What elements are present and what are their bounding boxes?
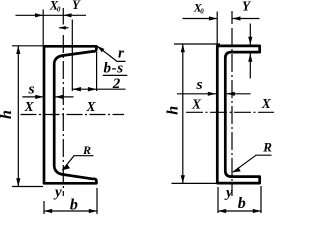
svg-text:2: 2 <box>112 76 121 92</box>
flange slope arrow (left view) <box>59 26 69 30</box>
label fraction (b-s)/2 <box>103 61 128 92</box>
dimension s web thickness (right view) <box>177 92 251 96</box>
dimension h (right view) <box>172 44 221 183</box>
svg-text:R: R <box>82 143 91 157</box>
svg-text:s: s <box>27 81 34 98</box>
label X0 (right view) <box>193 1 205 16</box>
svg-text:0: 0 <box>200 8 204 16</box>
svg-text:b: b <box>238 195 246 212</box>
leader R to web fillet (left view) <box>62 156 93 171</box>
right channel section outline <box>217 46 259 183</box>
svg-text:h: h <box>165 106 182 115</box>
svg-text:h: h <box>0 110 15 119</box>
axis Y (right view, vertical dash-dot centroid axis) <box>231 11 233 196</box>
svg-text:b: b <box>70 196 78 213</box>
dimension X0 (left view) <box>16 10 87 46</box>
svg-text:s: s <box>195 76 202 93</box>
label X0 (left view) <box>49 0 61 13</box>
svg-text:b-s: b-s <box>104 61 124 77</box>
leader R to web fillet (right view) <box>233 155 272 172</box>
svg-text:y: y <box>224 185 233 201</box>
left channel section outline <box>44 46 96 183</box>
svg-text:X: X <box>261 96 272 111</box>
dimension h (left view) <box>12 46 43 187</box>
dimension s web thickness (left view) <box>22 95 73 99</box>
axis X-X (right view, horizontal dash-dot) <box>186 111 274 113</box>
dimension (b-s)/2 (left view) <box>72 20 125 92</box>
svg-text:r: r <box>118 45 124 61</box>
svg-text:X: X <box>24 99 35 114</box>
svg-text:X: X <box>191 96 202 111</box>
leader r to flange tip radius (left view) <box>97 46 126 62</box>
axis Y (left view, vertical dash-dot centroid axis) <box>62 8 64 196</box>
svg-text:R: R <box>262 139 272 154</box>
svg-text:X: X <box>86 99 97 114</box>
svg-text:0: 0 <box>57 5 61 13</box>
svg-text:y: y <box>53 184 62 200</box>
dimension X0 (right view) <box>183 12 260 46</box>
axis X-X (left view, horizontal dash-dot) <box>21 114 125 116</box>
dimension b flange width (left view) <box>44 188 97 214</box>
dimension t flange thickness arrows (right view) <box>248 24 252 79</box>
dimension b flange width (right view) <box>218 186 261 213</box>
